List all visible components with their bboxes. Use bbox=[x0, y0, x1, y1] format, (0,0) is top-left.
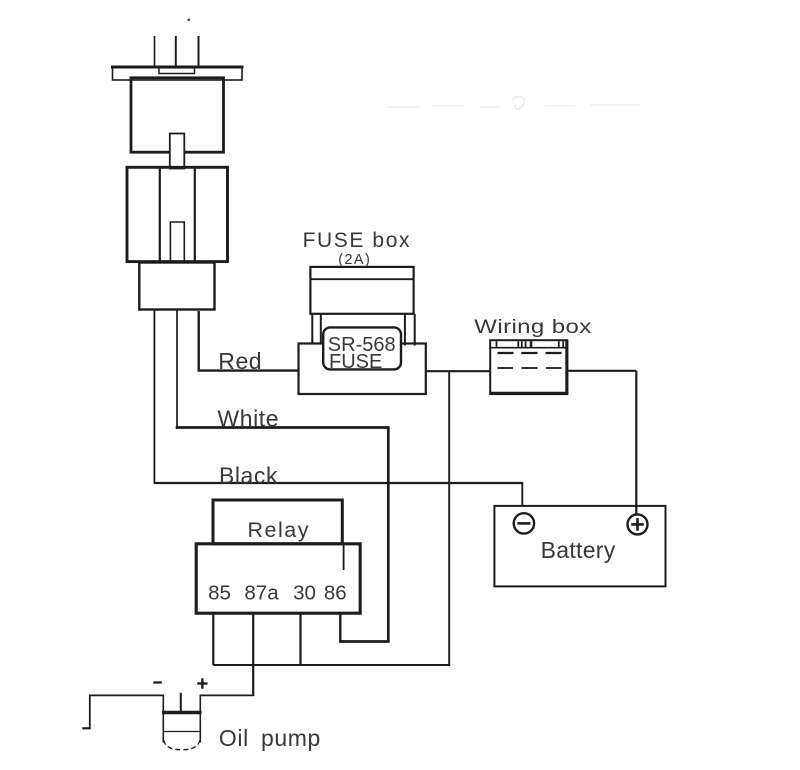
oil pump plus sign vertical bbox=[201, 678, 203, 688]
svg-text:White: White bbox=[217, 406, 279, 432]
relay pin 87a stub bbox=[252, 614, 254, 695]
plug P1 prong right bbox=[198, 36, 200, 67]
stray dot artifact bbox=[188, 19, 191, 22]
wire wiring box to battery plus corner bbox=[568, 370, 637, 372]
wire black horizontal bbox=[154, 482, 523, 484]
wire white bottom run to relay 86 bbox=[340, 640, 389, 643]
plug P1 lower body bbox=[127, 167, 228, 261]
plug P1 inner contact rect bbox=[170, 222, 184, 261]
fuse holder base bbox=[299, 344, 426, 395]
wire fuse base to wiring box bbox=[426, 370, 490, 372]
battery plus sign horizontal bbox=[631, 523, 644, 526]
wiring box body bbox=[490, 340, 567, 394]
plug P1 cap body bbox=[131, 78, 224, 152]
wire bottom run to relay pins bbox=[213, 664, 450, 666]
wire white vertical from plug bbox=[176, 310, 178, 427]
wire black drop to battery minus bbox=[521, 482, 523, 507]
battery minus terminal bbox=[514, 513, 534, 533]
wire oil pump plus run bbox=[200, 694, 254, 696]
wire ground tick bbox=[82, 727, 90, 729]
plug P1 lower body divider right bbox=[194, 168, 196, 261]
plug P1 prong left bbox=[154, 36, 156, 66]
battery plus sign vertical bbox=[636, 518, 639, 531]
svg-text:30: 30 bbox=[293, 581, 316, 604]
oil pump plus sign horizontal bbox=[197, 682, 207, 684]
svg-text:87a: 87a bbox=[244, 581, 279, 604]
wire drop to battery plus bbox=[635, 371, 637, 515]
svg-text:Wiring box: Wiring box bbox=[474, 315, 591, 337]
svg-text:86: 86 bbox=[324, 581, 347, 604]
svg-text:Red: Red bbox=[218, 348, 262, 374]
plug P1 plate inner slot bbox=[159, 68, 195, 74]
relay pin 86 stub bbox=[339, 614, 341, 643]
faint scan smudges bbox=[386, 96, 640, 109]
relay top box bbox=[213, 500, 342, 544]
plug P1 neck bbox=[170, 134, 185, 169]
svg-text:(2A): (2A) bbox=[338, 252, 371, 268]
plug P1 lower body divider left bbox=[159, 168, 161, 261]
battery minus sign bbox=[517, 522, 530, 525]
fuse holder right leg outer bbox=[414, 314, 416, 346]
wiring box dash row 1 bbox=[498, 352, 562, 354]
plug P1 mounting plate bbox=[113, 67, 243, 81]
plug P1 prong middle bbox=[175, 36, 177, 67]
oil pump minus sign bbox=[153, 681, 162, 683]
wire black vertical from plug bbox=[153, 310, 155, 484]
relay main box bbox=[196, 544, 360, 613]
wiring box pin strip line bbox=[490, 347, 567, 349]
fuse holder top box inner line bbox=[310, 278, 413, 280]
fuse SR-568 rounded body bbox=[323, 327, 401, 369]
wiring box dash row 2 bbox=[498, 367, 562, 369]
fuse holder top box bbox=[310, 267, 413, 314]
svg-text:Oil pump: Oil pump bbox=[219, 725, 321, 751]
svg-text:FUSE: FUSE bbox=[329, 351, 382, 373]
wire white drop bbox=[387, 426, 390, 641]
oil pump electrode bbox=[180, 693, 182, 711]
wire white horizontal bbox=[176, 426, 389, 429]
plug P1 bottom connector bbox=[139, 263, 214, 310]
svg-text:Battery: Battery bbox=[541, 537, 616, 563]
oil pump bottom arc dashed bbox=[164, 740, 200, 750]
fuse holder right leg inner bbox=[404, 314, 406, 346]
svg-text:85: 85 bbox=[208, 581, 231, 604]
relay pin 30 stub bbox=[299, 614, 301, 665]
svg-text:Relay: Relay bbox=[248, 518, 310, 542]
relay pin 85 stub bbox=[212, 614, 214, 665]
wire red horizontal to fuse box bbox=[198, 369, 299, 371]
oil pump top plate thick bbox=[162, 711, 202, 715]
wire oil pump minus run bbox=[90, 694, 164, 696]
wiring box right edge thick bbox=[565, 340, 568, 394]
plug P1 plate top edge thick bbox=[111, 66, 244, 69]
battery box bbox=[494, 506, 665, 587]
svg-text:Black: Black bbox=[219, 462, 278, 488]
oil pump inner line bbox=[164, 731, 199, 733]
svg-text:FUSE box: FUSE box bbox=[303, 229, 412, 252]
oil pump left wall bbox=[162, 695, 164, 743]
battery plus terminal bbox=[628, 514, 648, 534]
fuse holder left leg inner bbox=[320, 314, 322, 344]
oil pump right wall bbox=[199, 695, 201, 743]
wire oil pump minus drop bbox=[89, 695, 91, 729]
wiring box bottom edge thick bbox=[490, 392, 568, 395]
wire red vertical from plug bbox=[197, 311, 199, 370]
wire junction drop at x449 bbox=[448, 371, 450, 666]
wiring box pin ticks bbox=[497, 341, 564, 347]
fuse holder left leg outer bbox=[311, 314, 313, 344]
relay inner stub line bbox=[343, 545, 345, 570]
